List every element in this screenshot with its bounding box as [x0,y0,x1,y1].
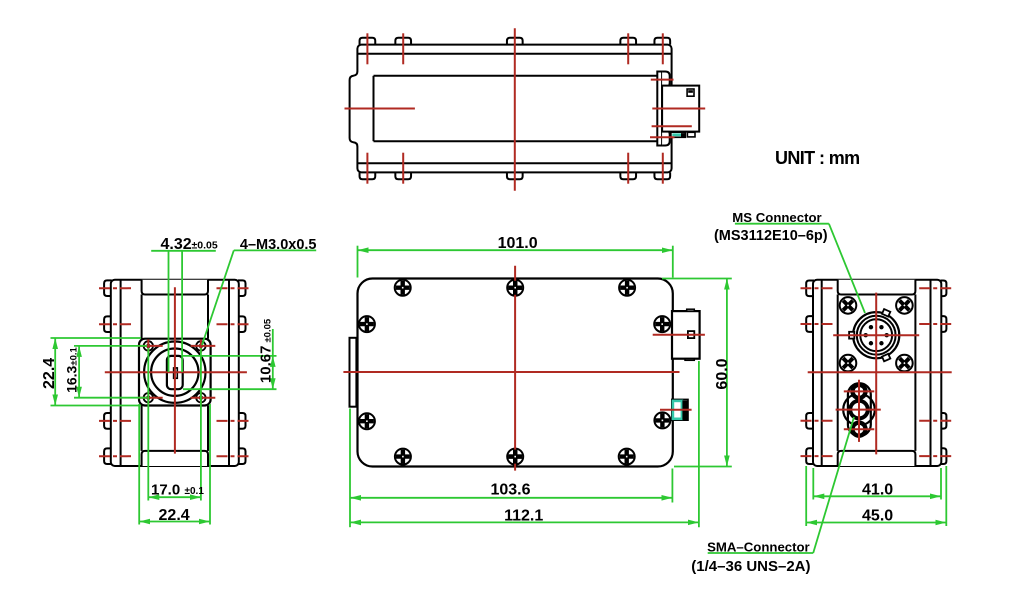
dimension 112.1 line [350,521,699,523]
mounting ear 5 (top strip) [654,38,670,45]
panel screw 3 (right view) [836,351,859,374]
left view flange tab left row 2 [104,316,112,332]
left view flange tab right row 4 [238,448,246,464]
end cap ear top [662,72,670,88]
flange strip outline (top view) [357,45,671,173]
right view tab centerline row 1 [801,287,835,289]
dimension 112.1 extension line [698,361,700,527]
right view SMA vertical centerline [858,380,860,442]
dimension 22.4 bottom line [139,521,210,523]
right view flange tab right row 1 [940,280,946,296]
right view long vertical centerline [875,293,877,455]
optical connector center key [174,368,178,378]
end cap ear bottom [662,130,670,146]
flange screw centerline cross #4 [191,397,216,399]
svg-text:60.0: 60.0 [714,358,731,389]
right view rail inner line (left) [821,280,823,466]
top view cap-ear centerline top [651,79,674,81]
MS connector block (top view) [662,86,699,132]
dimension 10.67 extensions [183,355,277,357]
right view body wall right [914,295,916,451]
top view horizontal centerline left [345,108,415,110]
dimension 45.0 extensions [805,466,807,526]
right end cap [657,72,662,146]
mounting ear 4 (bottom strip) [620,172,636,179]
right view top recess [838,280,916,295]
right view main horizontal centerline [808,371,952,373]
cover screw 9 (front view) [359,413,375,429]
flange screw M3 #2 (left view) [195,340,206,351]
top view centerline: ear column 1 [366,33,368,64]
flange screw M3 #3 (left view) [143,392,154,403]
right view tab centerline row 4 [801,455,835,457]
left view flange tab right row 3 [238,413,246,429]
right view MS horizontal centerline [833,334,919,336]
MS pin 2 [879,341,883,345]
SMA connector label leader [708,552,814,554]
left view bottom recess [142,451,208,466]
dimension 22.4 left extensions [51,337,142,339]
dimension 17.0 extensions [147,348,149,501]
dimension 22.4 left line [54,338,56,406]
right view flange tab left row 2 [806,316,814,332]
MS bayonet key 2 [882,354,890,362]
dimension 101.0 extension lines [357,246,359,278]
flange screw centerline cross #1 [138,345,163,347]
dimension 16.3 extensions [74,345,147,347]
right view body wall left [837,295,839,451]
fiber snout (front view) [350,338,357,407]
right view flange tab right row 2 [940,316,946,332]
left view main horizontal centerline [105,371,247,373]
right view flange tab right row 3 [940,413,946,429]
left view tab centerline row 2 [99,323,133,325]
left view main vertical centerline [174,287,176,453]
cover screw 7 (front view) [359,316,375,332]
mid screws cross redraw [508,281,522,295]
right view tab centerline row 3 [801,420,835,422]
MS connector bottom tab [685,359,694,361]
dimension 41.0 line [813,495,941,497]
left view top recess [142,280,208,295]
right view SMA center centerline [836,409,881,411]
svg-text:22.4: 22.4 [41,358,58,389]
dimension 60.0 line [726,279,728,467]
MS pin 5 [869,325,873,329]
body left end edge [373,76,375,141]
dimension 101.0 line [358,249,673,251]
right view SMA hole bottom centerline [844,428,875,430]
dimension 22.4 bottom extensions [138,404,140,525]
svg-text:(MS3112E10–6p): (MS3112E10–6p) [714,228,828,244]
left view rail inner line (right) [228,280,230,466]
leader 4-M3.0x0.5 [234,249,316,251]
cover screw 6 (front view) [619,449,635,465]
right view flange tab left row 4 [806,448,814,464]
mounting ear 2 (bottom strip) [395,172,411,179]
SMA outer circle [843,394,875,426]
svg-text:112.1: 112.1 [504,508,543,525]
optical connector inner circle [151,349,198,396]
cover screw 2 (front view) [507,280,523,296]
front view MS centerline [653,334,705,336]
right view rail inner line (right) [930,280,932,466]
strip inner edge top [357,53,671,55]
right view bottom recess [838,451,916,466]
front view SMA centerline [660,409,692,411]
top view centerline: ear column 5 [662,33,664,64]
optical connector outer circle [144,342,205,403]
svg-text:103.6: 103.6 [490,482,530,499]
right view flange tab left row 3 [806,413,814,429]
SMA connector (top view) [671,132,685,137]
left view body wall upper-left [141,295,143,339]
svg-text:(1/4–36 UNS–2A): (1/4–36 UNS–2A) [691,558,810,575]
left view tab centerline row 1 [99,287,133,289]
dimension 45.0 line [806,522,946,524]
MS connector label leader [735,223,829,225]
left view body wall lower-right [207,406,209,451]
dimension 103.6 extension lines [349,409,351,528]
left view tab centerline row 4 [99,455,133,457]
MS pin 3 [869,341,873,345]
mounting ear 1 (top strip) [360,38,376,45]
left view flange tab right row 1 [238,280,246,296]
top view SMA upper centerline [652,125,692,127]
top view centerline: middle column [514,28,516,191]
main body outline [358,279,673,467]
svg-text:4–M3.0x0.5: 4–M3.0x0.5 [240,237,317,253]
left view rail inner line (left) [120,280,122,466]
dimension 60.0 extension lines [662,278,732,280]
left view flange tab right row 2 [238,316,246,332]
dimension 16.3 line [78,346,80,398]
panel screw 4 (right view) [893,351,916,374]
dimension 4.32 underline and extensions [151,250,216,252]
right view tab centerline row 2 [801,323,835,325]
right view SMA hole top centerline [844,390,875,392]
top view cap-ear centerline bottom [650,136,675,138]
body face bottom edge [374,140,658,142]
mounting ear 4 (top strip) [620,38,636,45]
front view main horizontal centerline [343,371,679,373]
svg-text:41.0: 41.0 [862,482,893,499]
flange screw centerline cross #2 [191,345,216,347]
front view main vertical centerline [514,266,516,471]
left view tab centerline row 3 [99,420,133,422]
MS pin 6 [879,325,883,329]
SMA connector (front view) [672,399,688,420]
svg-text:45.0: 45.0 [862,508,893,525]
MS pin 1 [885,333,889,337]
dimension 103.6 line [350,497,672,499]
svg-text:±0.05: ±0.05 [192,239,218,251]
MS bayonet key 1 [882,309,890,317]
panel screw 1 (right view) [836,294,859,317]
mounting ear 2 (top strip) [395,38,411,45]
svg-text:SMA–Connector: SMA–Connector [707,539,810,554]
MS connector inner circle [860,319,892,351]
left view flange tab left row 4 [104,448,112,464]
left view flange tab left row 3 [104,413,112,429]
svg-text:MS Connector: MS Connector [732,210,821,225]
MS connector top tab [687,309,695,311]
right view flange tab left row 1 [806,280,814,296]
SMA mounting hole bottom [850,421,867,438]
fiber snout (top view) [350,72,360,147]
SMA flange (right view) [848,383,871,436]
flange screw centerline cross #3 [138,397,163,399]
MS polarizing key (front view) [688,331,694,338]
MS polarizing key (top view) [687,89,694,96]
mounting ear 1 (bottom strip) [360,172,376,179]
top view centerline: ear column 2 [402,33,404,64]
cover screw 1 (front view) [395,280,411,296]
SMA center conductor [848,399,870,421]
MS connector side profile (front view) [672,311,700,359]
top view centerline: ear column 4 [627,33,629,64]
strip inner edge bottom [357,162,671,164]
cover screw 8 (front view) [654,316,670,332]
dimension 17.0 line [148,496,201,498]
MS bayonet key 3 [849,332,854,339]
left view outer outline [111,280,239,466]
svg-text:101.0: 101.0 [498,235,538,252]
SMA nut (top view) [687,132,695,137]
cover screw 4 (front view) [395,449,411,465]
svg-text:17.0: 17.0 [151,481,180,498]
svg-text:4.32: 4.32 [161,236,192,253]
body face top edge [374,75,658,77]
optical connector flange plate [139,339,211,406]
SMA mounting hole top [850,383,867,400]
optical connector slot [167,356,183,389]
right view outer outline [813,280,941,466]
dimension 41.0 extensions [812,468,814,500]
mounting ear 3 (bottom strip) [507,172,523,179]
mounting ear 5 (bottom strip) [654,172,670,179]
cover screw 5 (front view) [507,449,523,465]
cover screw 10 (front view) [654,412,670,428]
top view horizontal centerline right [652,108,705,110]
right view flange tab right row 4 [940,448,946,464]
MS connector outer circle [853,312,899,358]
cover screw 3 (front view) [619,280,635,296]
dimension 10.67 line [272,329,274,356]
left view body wall upper-right [207,295,209,339]
mounting ear 3 (top strip) [507,38,523,45]
panel screw 2 (right view) [893,294,916,317]
flange screw M3 #4 (left view) [195,392,206,403]
left view body wall lower-left [141,406,143,451]
MS connector middle circle [857,316,896,355]
svg-text:±0.1: ±0.1 [185,486,205,497]
svg-text:22.4: 22.4 [159,507,190,524]
svg-text:UNIT : mm: UNIT : mm [775,148,860,168]
left view flange tab left row 1 [104,280,112,296]
flange screw M3 #1 (left view) [143,340,154,351]
MS pin 4 [864,333,868,337]
